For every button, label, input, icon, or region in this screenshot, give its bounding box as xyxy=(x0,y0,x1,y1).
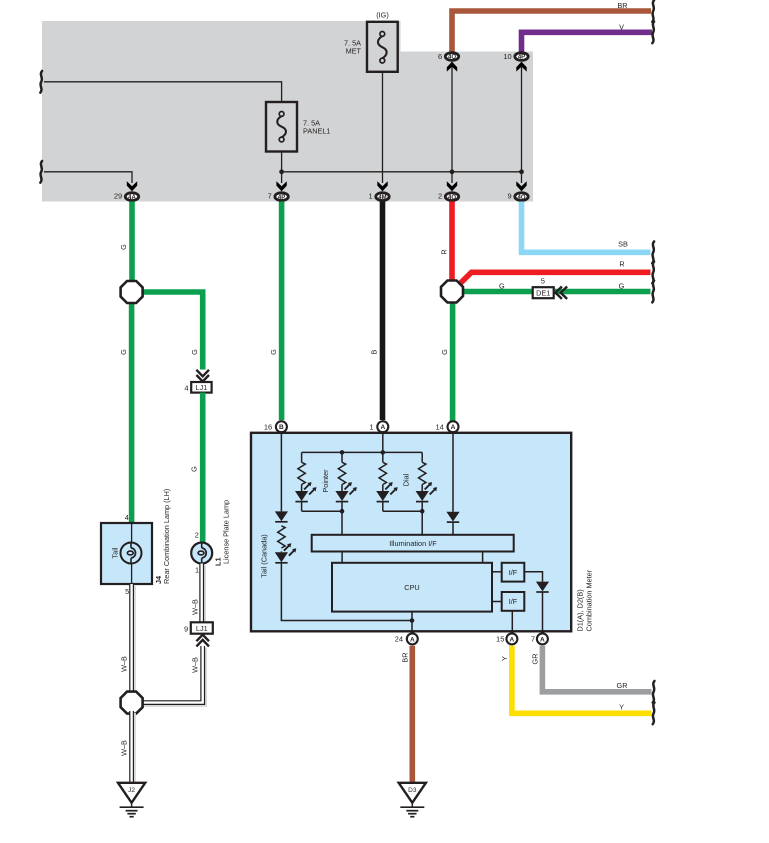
connector pin 7 4P xyxy=(268,192,289,201)
wire BR (brown) to break xyxy=(452,0,654,52)
wire lower I/F to pin 15 xyxy=(511,611,513,632)
svg-text:G: G xyxy=(619,281,625,290)
wire from left break to PANEL1 fuse xyxy=(40,71,281,102)
lamp rail xyxy=(302,451,423,453)
wire G (green) junction down to meter pin 14 xyxy=(440,299,453,421)
wire MET fuse to pin 1 4M xyxy=(382,72,384,183)
I/F block upper xyxy=(492,563,524,582)
junction dot xyxy=(519,169,524,174)
svg-text:GR: GR xyxy=(530,654,539,665)
svg-text:4Q: 4Q xyxy=(448,55,456,61)
connector pin 1 4M xyxy=(369,192,390,201)
svg-text:7: 7 xyxy=(531,635,535,644)
wire CPU to pin 24 xyxy=(410,612,415,631)
svg-text:16: 16 xyxy=(264,422,272,431)
svg-text:W–B: W–B xyxy=(120,740,129,756)
svg-text:2: 2 xyxy=(195,531,199,540)
wire W-B junction to ground J2 xyxy=(120,711,134,785)
svg-text:Tail (Canada): Tail (Canada) xyxy=(260,534,269,577)
wire G (green) pin7 4P down to meter pin 16 xyxy=(269,202,282,421)
illumination lamp branch 1 (resistor + LED) xyxy=(295,452,317,511)
wire G (green) left junction down to tail lamp xyxy=(119,299,132,523)
svg-text:LJ1: LJ1 xyxy=(196,383,208,392)
arrow into pin 29 xyxy=(127,181,137,191)
svg-text:4: 4 xyxy=(184,384,188,393)
arrow into pin 9 xyxy=(516,181,526,191)
svg-text:V: V xyxy=(619,22,624,31)
I/F block lower xyxy=(492,592,524,611)
Illumination I/F block xyxy=(312,535,514,552)
wire GR (gray) pin7 to break xyxy=(530,646,654,703)
svg-text:Illumination I/F: Illumination I/F xyxy=(389,539,437,548)
svg-text:A: A xyxy=(540,636,545,643)
svg-text:License Plate Lamp: License Plate Lamp xyxy=(222,500,231,564)
connector arrows into LJ1 (down) xyxy=(196,370,209,382)
svg-text:D3: D3 xyxy=(408,787,417,794)
svg-text:B: B xyxy=(370,349,379,354)
svg-text:1: 1 xyxy=(369,192,373,201)
illumination lamp branch 4 xyxy=(402,452,438,511)
svg-text:GR: GR xyxy=(617,681,628,690)
wire G (green) pin29 down to left junction xyxy=(119,202,132,285)
svg-text:Combination Meter: Combination Meter xyxy=(585,569,594,631)
svg-text:G: G xyxy=(269,349,278,355)
diode to pin 7 xyxy=(536,582,549,592)
designator D1(A), D2(B) Combination Meter xyxy=(576,569,594,631)
junction node (ground octagon) xyxy=(121,692,143,714)
svg-text:5: 5 xyxy=(541,277,545,286)
svg-text:10: 10 xyxy=(503,52,511,61)
svg-text:2: 2 xyxy=(438,192,442,201)
svg-text:7: 7 xyxy=(268,192,272,201)
svg-text:Pointer: Pointer xyxy=(321,469,330,493)
svg-text:I/F: I/F xyxy=(509,568,518,577)
designator L1 License Plate Lamp xyxy=(214,500,231,566)
wire SB (light blue) pin9 to break xyxy=(522,202,655,264)
ground J2 xyxy=(118,783,145,817)
svg-text:D1(A), D2(B): D1(A), D2(B) xyxy=(576,589,585,631)
wire V (violet) to break xyxy=(522,21,655,52)
arrow into pin 7 xyxy=(276,181,286,191)
svg-text:14: 14 xyxy=(435,422,443,431)
arrow into pin 10 xyxy=(516,62,526,72)
wire PANEL1 fuse to pin 7 4P xyxy=(281,152,283,184)
junction node (left octagon) xyxy=(121,281,143,303)
svg-text:4Q: 4Q xyxy=(448,195,456,201)
wire W-B LJ1 down to ground junction xyxy=(141,646,205,705)
svg-text:Rear Combination Lamp (LH): Rear Combination Lamp (LH) xyxy=(162,489,171,584)
svg-text:A: A xyxy=(510,636,515,643)
meter pin 16 B xyxy=(264,421,287,432)
resistor in tail chain xyxy=(278,526,285,548)
svg-text:9: 9 xyxy=(184,624,188,633)
svg-text:4: 4 xyxy=(125,513,129,522)
meter pin 7 A xyxy=(531,633,548,644)
connector pin 9 4Q xyxy=(508,192,529,201)
connector pin 10 4P xyxy=(503,52,528,61)
svg-text:(IG): (IG) xyxy=(376,11,389,20)
illumination lamp branch 3 xyxy=(376,452,398,511)
wire tail chain to CPU bottom node xyxy=(281,563,412,621)
svg-text:R: R xyxy=(440,249,449,254)
svg-text:4M: 4M xyxy=(378,195,386,201)
diode in tail chain xyxy=(275,511,288,521)
svg-text:29: 29 xyxy=(114,192,122,201)
branch joins xyxy=(302,509,425,535)
svg-text:G: G xyxy=(119,349,128,355)
wire from left break to pin 29 xyxy=(40,161,132,183)
meter pin 24 A xyxy=(395,633,418,644)
wire W-B tail lamp down to ground junction xyxy=(120,584,134,695)
junction dot xyxy=(279,169,284,174)
wire R (red) pin2 down to junction xyxy=(440,202,453,285)
svg-text:W–B: W–B xyxy=(120,656,129,672)
svg-text:24: 24 xyxy=(395,635,403,644)
wires illumination IF to CPU xyxy=(342,552,483,563)
junction dot xyxy=(450,169,455,174)
ground D3 xyxy=(399,783,426,817)
CPU block xyxy=(332,563,492,612)
wire G (green) left junction to license plate branch xyxy=(140,292,203,370)
junction dot xyxy=(340,450,345,455)
svg-text:A: A xyxy=(410,636,415,643)
svg-text:4P: 4P xyxy=(518,55,525,61)
svg-text:DE1: DE1 xyxy=(536,289,550,298)
svg-text:BR: BR xyxy=(617,1,627,10)
pin 14 chain with diode xyxy=(452,434,454,535)
vertical pin10-pin9 xyxy=(521,63,523,183)
svg-text:A: A xyxy=(380,424,385,431)
svg-text:G: G xyxy=(190,349,199,355)
connector pin 29 4A xyxy=(114,192,139,201)
svg-text:Tail: Tail xyxy=(111,547,120,558)
wire pin1 to lamp rail xyxy=(382,434,384,453)
svg-text:CPU: CPU xyxy=(404,583,419,592)
splice DE1 xyxy=(533,277,567,299)
svg-text:MET: MET xyxy=(346,47,362,56)
connector pin 6 4Q xyxy=(438,52,459,61)
svg-text:9: 9 xyxy=(508,192,512,201)
junction block / instrument panel body (gray) xyxy=(42,21,533,202)
Tail (Canada) chain: wire from pin16 xyxy=(260,434,282,578)
svg-text:6: 6 xyxy=(438,52,442,61)
svg-text:Y: Y xyxy=(500,656,509,661)
connector arrows out of LJ1 (up) xyxy=(196,635,209,647)
junction node (right octagon) xyxy=(441,281,463,303)
svg-text:W–B: W–B xyxy=(191,599,200,615)
license plate lamp L1 bulb xyxy=(191,531,212,575)
wire G (green) junction to break via DE1 xyxy=(458,281,654,303)
wire W-B license lamp down to LJ1 xyxy=(191,564,204,625)
meter pin 15 A xyxy=(496,633,517,644)
svg-text:1: 1 xyxy=(195,566,199,575)
svg-text:G: G xyxy=(119,244,128,250)
svg-text:Dial: Dial xyxy=(402,473,411,486)
fuse MET 7.5A xyxy=(344,11,398,72)
svg-text:15: 15 xyxy=(496,635,504,644)
svg-text:4Q: 4Q xyxy=(517,195,525,201)
svg-text:BR: BR xyxy=(400,652,409,662)
svg-text:4P: 4P xyxy=(278,195,285,201)
junction connector LJ1 (4) xyxy=(184,382,211,393)
svg-text:Y: Y xyxy=(619,702,624,711)
svg-text:5: 5 xyxy=(125,587,129,596)
svg-text:LJ1: LJ1 xyxy=(196,624,208,633)
LED tail chain xyxy=(275,543,297,563)
wire upper I/F to diode to pin 7 xyxy=(524,572,542,632)
svg-text:G: G xyxy=(499,281,505,290)
vertical pin6-pin2 xyxy=(451,62,453,183)
svg-text:PANEL1: PANEL1 xyxy=(303,126,330,135)
junction dot xyxy=(381,450,386,455)
svg-text:J2: J2 xyxy=(128,787,135,794)
arrow into pin 1 xyxy=(377,181,387,191)
tail lamp J4 box xyxy=(101,513,152,596)
designator J4 Rear Combination Lamp (LH) xyxy=(154,489,171,584)
diode pin14 chain xyxy=(446,512,459,522)
wire Y (yellow) pin15 to break xyxy=(500,646,655,724)
svg-text:R: R xyxy=(619,259,624,268)
wire R (red) junction to break xyxy=(454,259,655,290)
internal rail y=171.8 xyxy=(282,171,522,173)
svg-text:G: G xyxy=(189,466,198,472)
wire BR (brown) pin24 to ground D3 xyxy=(400,646,412,783)
wire G (green) LJ1 down to license plate lamp xyxy=(189,393,202,543)
wire B (black) pin1 4M down to meter pin 1 xyxy=(370,202,383,421)
illumination lamp branch 2 xyxy=(321,452,357,511)
svg-text:A: A xyxy=(451,424,456,431)
svg-text:W–B: W–B xyxy=(191,657,200,673)
svg-text:4A: 4A xyxy=(128,195,136,201)
svg-text:G: G xyxy=(440,349,449,355)
meter pin 14 A xyxy=(435,421,458,432)
arrow into pin 6 xyxy=(447,62,457,72)
svg-text:SB: SB xyxy=(618,239,628,248)
svg-text:1: 1 xyxy=(369,422,373,431)
junction connector LJ1 (9) xyxy=(184,622,213,633)
arrow into pin 2 xyxy=(447,181,457,191)
svg-text:B: B xyxy=(279,424,284,431)
combination meter body xyxy=(251,433,571,632)
svg-text:I/F: I/F xyxy=(509,597,518,606)
connector pin 2 4Q xyxy=(438,192,459,201)
meter pin 1 A xyxy=(369,421,388,432)
fuse PANEL1 7.5A xyxy=(266,102,330,152)
